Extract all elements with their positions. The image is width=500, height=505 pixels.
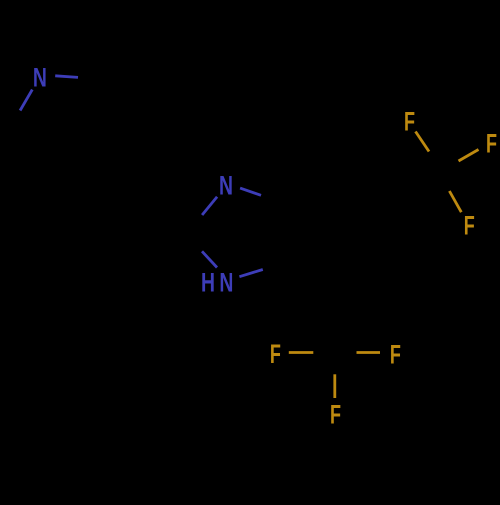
svg-text:F: F (330, 399, 341, 429)
svg-text:N: N (219, 170, 233, 200)
svg-text:N: N (219, 267, 233, 297)
svg-text:H: H (201, 267, 215, 297)
bond C-F right (half-bond) (459, 150, 479, 162)
svg-text:F: F (486, 128, 497, 158)
bond C-F upper-left (half-bond) (416, 132, 430, 152)
bond C-F right (half-bond) (357, 351, 381, 354)
bond C-F lower (half-bond) (449, 191, 461, 212)
bond C-F left (half-bond) (289, 351, 314, 354)
svg-text:N: N (33, 62, 47, 92)
bond N3 to C2 (half-bond) (202, 251, 217, 267)
svg-text:F: F (464, 211, 475, 241)
bond N3 to C3a (half-bond) (239, 270, 262, 277)
bond N1 to C2 (half-bond) (202, 197, 217, 215)
bond pyridine N to C (right half-bond) (55, 76, 78, 78)
bond pyridine N to C (lower-left half-bond) (20, 90, 32, 111)
svg-text:F: F (390, 339, 401, 369)
bond C-F bottom (half-bond) (333, 374, 336, 398)
svg-text:F: F (404, 107, 415, 137)
bond N1 to C7a (half-bond) (240, 188, 261, 195)
svg-text:F: F (270, 339, 281, 369)
